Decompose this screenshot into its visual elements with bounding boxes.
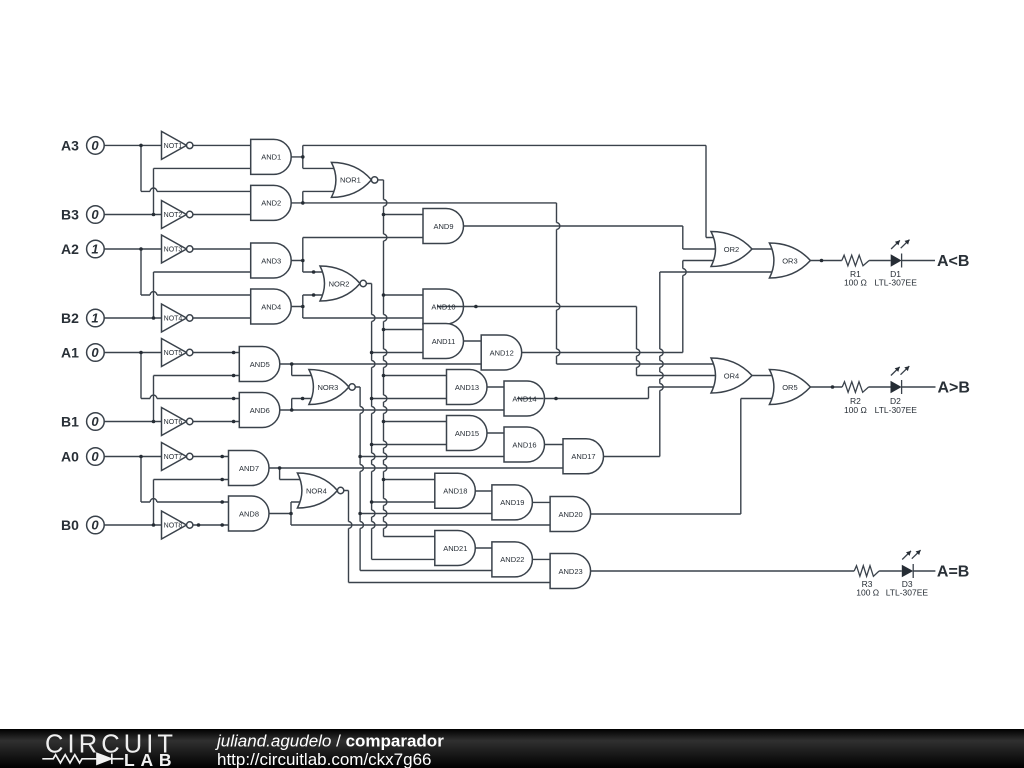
svg-text:B2: B2 (61, 310, 79, 326)
svg-text:OR2: OR2 (724, 245, 739, 254)
svg-text:AND18: AND18 (443, 487, 467, 496)
svg-text:A0: A0 (61, 449, 79, 465)
svg-text:AND23: AND23 (559, 567, 583, 576)
svg-text:1: 1 (91, 242, 98, 257)
svg-text:A1: A1 (61, 345, 79, 361)
svg-text:juliand.agudelo / comparador: juliand.agudelo / comparador (215, 732, 444, 751)
svg-text:0: 0 (91, 345, 99, 360)
svg-text:AND3: AND3 (261, 256, 281, 265)
svg-text:A3: A3 (61, 137, 79, 153)
svg-text:OR3: OR3 (782, 256, 797, 265)
svg-text:100 Ω: 100 Ω (844, 278, 867, 288)
svg-text:A2: A2 (61, 241, 79, 257)
svg-text:100 Ω: 100 Ω (856, 588, 879, 598)
svg-text:AND6: AND6 (250, 406, 270, 415)
svg-text:LAB: LAB (124, 750, 177, 768)
svg-text:NOT6: NOT6 (164, 419, 183, 426)
svg-text:AND10: AND10 (431, 302, 455, 311)
svg-text:0: 0 (91, 518, 99, 533)
svg-text:NOT3: NOT3 (164, 247, 183, 254)
svg-text:0: 0 (91, 449, 99, 464)
svg-text:LTL-307EE: LTL-307EE (886, 588, 929, 598)
svg-text:AND19: AND19 (500, 498, 524, 507)
svg-text:http://circuitlab.com/ckx7g66: http://circuitlab.com/ckx7g66 (217, 750, 431, 768)
svg-text:0: 0 (91, 414, 99, 429)
svg-text:NOT4: NOT4 (164, 316, 183, 323)
svg-text:AND20: AND20 (559, 510, 583, 519)
svg-text:NOR4: NOR4 (306, 486, 327, 495)
svg-text:NOT7: NOT7 (164, 454, 183, 461)
svg-text:NOR2: NOR2 (329, 279, 350, 288)
svg-text:0: 0 (91, 207, 99, 222)
svg-text:NOT2: NOT2 (164, 212, 183, 219)
svg-text:AND12: AND12 (490, 348, 514, 357)
svg-text:NOR3: NOR3 (317, 383, 338, 392)
svg-text:A>B: A>B (938, 379, 970, 396)
svg-text:AND4: AND4 (261, 302, 281, 311)
svg-text:B3: B3 (61, 207, 79, 223)
svg-text:AND2: AND2 (261, 199, 281, 208)
svg-text:A=B: A=B (937, 563, 969, 580)
svg-text:B0: B0 (61, 517, 79, 533)
svg-text:AND11: AND11 (432, 337, 456, 346)
svg-text:NOT5: NOT5 (164, 350, 183, 357)
svg-text:AND16: AND16 (512, 440, 536, 449)
svg-text:A<B: A<B (937, 253, 969, 270)
svg-text:1: 1 (91, 311, 98, 326)
svg-text:AND17: AND17 (571, 452, 595, 461)
svg-text:AND15: AND15 (455, 429, 479, 438)
svg-text:AND5: AND5 (250, 360, 270, 369)
svg-text:AND1: AND1 (261, 153, 281, 162)
svg-text:NOR1: NOR1 (340, 176, 361, 185)
svg-text:NOT1: NOT1 (164, 143, 183, 150)
svg-text:B1: B1 (61, 414, 79, 430)
svg-text:OR5: OR5 (782, 383, 797, 392)
svg-text:NOT8: NOT8 (164, 523, 183, 530)
svg-text:AND14: AND14 (512, 394, 536, 403)
svg-text:LTL-307EE: LTL-307EE (875, 405, 918, 415)
svg-text:AND13: AND13 (455, 383, 479, 392)
svg-text:AND22: AND22 (500, 555, 524, 564)
svg-text:LTL-307EE: LTL-307EE (875, 278, 918, 288)
svg-text:100 Ω: 100 Ω (844, 405, 867, 415)
svg-text:AND21: AND21 (443, 544, 467, 553)
svg-text:OR4: OR4 (724, 371, 739, 380)
svg-text:AND7: AND7 (239, 464, 259, 473)
svg-text:0: 0 (91, 138, 99, 153)
svg-text:AND8: AND8 (239, 509, 259, 518)
svg-text:AND9: AND9 (433, 222, 453, 231)
